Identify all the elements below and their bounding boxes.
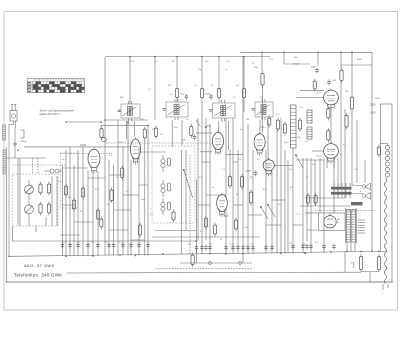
labels texture <box>58 91 359 216</box>
wires transformer bottom <box>347 242 355 251</box>
resistor Rp <box>306 193 309 206</box>
resistor Rq <box>314 193 317 206</box>
wire y120 <box>105 119 148 121</box>
svg-text:1n: 1n <box>283 129 285 131</box>
wire T4b anode <box>274 164 293 166</box>
title AEG <box>24 263 55 268</box>
label 220V <box>370 104 376 107</box>
wire top bus link <box>261 52 263 56</box>
wires speaker leads <box>352 185 364 194</box>
label AF7 <box>317 92 322 95</box>
wires B3 leads <box>260 120 268 160</box>
resistor Rh <box>249 190 252 206</box>
heater winding comb <box>358 220 366 233</box>
capacitor antenna 500pF <box>13 141 27 158</box>
resistor Rv1 <box>276 118 279 132</box>
IF transformer B0 <box>118 101 140 121</box>
wire 345 drop <box>344 252 346 273</box>
svg-text:30V: 30V <box>182 139 186 141</box>
wire y198 <box>305 197 345 199</box>
labels bottom <box>63 242 319 246</box>
resistor Rz1 <box>359 254 362 272</box>
resistor Rv2 <box>283 122 286 136</box>
label 7 <box>351 261 353 265</box>
wire antenna tap <box>14 121 17 141</box>
wire T6 grid <box>312 150 324 152</box>
svg-text:240V: 240V <box>357 59 362 61</box>
note text <box>40 109 75 117</box>
svg-text:2n: 2n <box>312 164 314 166</box>
svg-text:C7₂: C7₂ <box>207 125 211 128</box>
label AL4b <box>317 155 322 158</box>
wire left col C <box>12 226 14 241</box>
node dots bottom <box>209 262 242 265</box>
wires B0 leads <box>126 121 134 139</box>
wire 219 down <box>218 100 220 103</box>
label C7-4 <box>257 159 261 161</box>
IF bar tall <box>291 105 297 148</box>
resistor R14 <box>138 223 141 238</box>
wire drop 130 <box>129 86 131 104</box>
labels texture 2 <box>120 57 380 143</box>
svg-text:50pF: 50pF <box>205 94 211 96</box>
output transformer bar 2 <box>331 192 352 195</box>
resistor Re <box>268 116 271 128</box>
oscillator dashed box <box>152 146 195 223</box>
wire left col B <box>19 158 21 226</box>
wire y154 <box>226 154 243 156</box>
oscillator coil 1 <box>161 180 171 197</box>
resistor selector <box>377 145 380 158</box>
resistor osc <box>172 210 175 223</box>
svg-text:1M: 1M <box>246 119 249 121</box>
wire top bus left <box>105 56 270 58</box>
labels misc <box>62 67 362 246</box>
tube C7 second <box>212 131 223 156</box>
wire z bottom <box>361 272 379 283</box>
svg-text:220V: 220V <box>370 104 376 107</box>
wire antenna down <box>9 121 14 256</box>
resistor Rb <box>200 86 203 100</box>
wire y65 right <box>341 64 372 66</box>
wires top right drops <box>262 52 341 71</box>
capacitor row middle <box>195 245 274 251</box>
wire AVC line <box>12 240 196 242</box>
svg-text:5n: 5n <box>278 204 280 206</box>
wires osc verticals <box>182 150 190 254</box>
svg-text:150V: 150V <box>370 112 376 115</box>
variable capacitor C1 <box>25 180 34 200</box>
voltage selector contacts <box>385 145 389 177</box>
rectifier tube AZ11 <box>324 213 336 228</box>
heater resistance wire <box>384 178 387 284</box>
label 100pF <box>293 64 300 66</box>
svg-text:1M: 1M <box>345 91 348 93</box>
label AL4 <box>224 215 229 218</box>
resistor Rl <box>327 106 330 121</box>
wire 202 down <box>201 100 203 103</box>
wires middle-left verticals <box>105 57 148 256</box>
loudspeaker <box>363 183 371 199</box>
mains transformer core <box>345 208 356 244</box>
wires top drops <box>130 57 244 87</box>
resistor R13 <box>121 166 124 181</box>
svg-text:50pF: 50pF <box>246 171 252 173</box>
svg-text:1M: 1M <box>68 197 71 199</box>
label ACH1 <box>80 144 87 147</box>
resistor bottom pill <box>191 253 194 268</box>
svg-text:AEG, 37 GWK: AEG, 37 GWK <box>24 263 55 268</box>
tube duo-diode <box>263 158 274 177</box>
wire y122 <box>66 121 101 123</box>
resistor Rf3 <box>213 223 216 237</box>
wire bottom bus 2 <box>67 271 362 274</box>
wire heater drop 2 <box>242 254 244 263</box>
tube AF7 <box>324 88 339 110</box>
resistor Rn <box>345 113 348 130</box>
svg-text:5nF: 5nF <box>181 94 185 96</box>
wire y147 left <box>24 146 131 148</box>
resistor R8 <box>96 208 99 222</box>
wire selector top <box>380 104 392 251</box>
label C7-3 <box>261 126 265 129</box>
resistor left box A <box>39 182 51 196</box>
capacitor 5nF <box>181 94 188 100</box>
wire heater drop 1 <box>195 254 197 263</box>
grid stopper cluster <box>182 121 207 141</box>
wire varcap2 down <box>45 217 47 226</box>
resistor R5 <box>64 184 67 198</box>
wire main bottom bus <box>10 251 386 256</box>
svg-text:AL4: AL4 <box>224 215 229 218</box>
switch arm osc <box>183 169 193 197</box>
resistor Rz2 <box>377 254 380 272</box>
wires below T6 <box>303 158 338 253</box>
tube AF osc <box>131 137 141 165</box>
antenna <box>10 105 17 122</box>
switch diagonals <box>260 204 275 219</box>
svg-text:gelten bei 220 V ~: gelten bei 220 V ~ <box>40 112 62 116</box>
label texture v <box>200 227 249 241</box>
resistor Ra <box>175 86 178 100</box>
hook curve <box>353 262 354 268</box>
wire ground left frame <box>5 147 7 282</box>
resistor Ri <box>261 71 264 88</box>
resistor Ro <box>350 95 353 112</box>
ground hatch bar <box>3 125 6 140</box>
resistor R10 <box>143 127 146 141</box>
wires left section verticals <box>63 147 99 256</box>
coil pair left <box>44 169 62 173</box>
band switch table <box>27 78 84 92</box>
coupling bracket <box>21 130 25 138</box>
capacitor 50pF top <box>205 94 213 100</box>
svg-text:5n: 5n <box>240 129 242 131</box>
resistor Rd <box>242 86 245 100</box>
tube AL4 <box>217 193 228 218</box>
svg-text:C7₃: C7₃ <box>261 126 265 129</box>
tube ACH1 <box>88 147 100 173</box>
wire y152 stub <box>140 151 166 153</box>
wire y133 <box>196 132 212 134</box>
output transformer bar 1 <box>331 187 352 190</box>
svg-text:240V: 240V <box>375 98 380 100</box>
wire T5 grid <box>296 97 324 99</box>
wire 244 down <box>243 100 245 112</box>
oscillator coil 3 <box>161 198 171 215</box>
label 150V <box>370 112 376 115</box>
mains transformer winding 1 <box>347 210 351 243</box>
resistor R6 <box>72 198 75 212</box>
resistor R10b <box>154 126 157 140</box>
svg-text:Telefunken, 340 GWK: Telefunken, 340 GWK <box>14 272 62 277</box>
variable capacitor C2 <box>25 201 34 223</box>
resistor Rg <box>240 174 243 190</box>
wire far-right rail <box>391 104 393 282</box>
svg-text:1n: 1n <box>212 187 214 189</box>
wire left col D <box>51 176 53 226</box>
switch diag right <box>295 155 303 169</box>
resistor R12 <box>100 217 103 230</box>
svg-text:Strom- und Spannungswerte: Strom- und Spannungswerte <box>40 109 75 113</box>
wire 352 top <box>351 52 353 94</box>
svg-text:50pF: 50pF <box>311 67 317 69</box>
svg-text:2,5V: 2,5V <box>130 61 135 63</box>
output transformer leads <box>334 183 350 198</box>
wire below box stub <box>35 226 37 232</box>
resistor Rc <box>217 86 220 100</box>
wire 177 down <box>176 100 178 102</box>
svg-text:2n: 2n <box>107 204 109 206</box>
svg-text:2nF: 2nF <box>333 80 337 82</box>
svg-text:1M: 1M <box>168 85 171 87</box>
resistor R9 <box>100 126 103 140</box>
capacitor row right <box>291 244 335 250</box>
svg-text:40V: 40V <box>119 142 123 144</box>
svg-text:ACH1: ACH1 <box>80 144 87 147</box>
capacitor 50pF mid <box>246 170 257 176</box>
wire right HT rail <box>371 52 373 251</box>
mains transformer winding 2 <box>352 210 356 243</box>
resistor Rv3 <box>298 118 301 132</box>
wire y206 <box>300 205 351 207</box>
label C7a <box>126 123 130 126</box>
oscillator coil 2 <box>161 155 171 172</box>
wire connector stubs <box>63 162 318 240</box>
wire y168 left <box>63 167 89 169</box>
tuning gang dashed box <box>13 174 58 226</box>
title Telefunken <box>14 272 62 277</box>
svg-text:C⁄ n: C⁄ n <box>317 92 322 95</box>
resistor Rf4 <box>234 218 237 232</box>
mains plug marks <box>382 284 388 295</box>
wire dashed stub A <box>32 158 34 174</box>
IF transformer B3 <box>252 99 273 120</box>
node circle <box>102 137 106 141</box>
wire drop 155 <box>154 86 156 120</box>
wires B1 leads <box>172 120 182 147</box>
wire y125 <box>100 124 148 126</box>
resistor Rf2 <box>204 216 207 230</box>
resistor Rk <box>313 79 316 92</box>
schematic bottom frame <box>6 281 394 283</box>
bandfilter dashed box left <box>61 153 79 208</box>
field coil bar <box>351 202 363 205</box>
label AZ11 <box>337 218 340 224</box>
wire dashed y143 <box>106 142 212 144</box>
tube C7 third <box>254 132 265 156</box>
wire y237 <box>152 236 260 238</box>
wire y64 <box>284 63 310 65</box>
wire y90 <box>300 89 324 91</box>
resistor Rm <box>327 128 330 143</box>
wire heater line <box>180 262 252 264</box>
wire ground dashed <box>155 268 252 270</box>
wires middle verticals <box>196 57 253 254</box>
wire y153 dashed <box>60 153 112 155</box>
resistor left box B <box>39 202 51 216</box>
resistor R11 <box>110 188 113 204</box>
wire y210 <box>315 210 375 212</box>
wire dashed stub B <box>37 158 39 174</box>
wires T6 pins <box>296 159 334 169</box>
wire top bus right <box>240 51 372 53</box>
wires centre-right verticals <box>263 85 294 254</box>
IF transformer B1 <box>163 99 188 120</box>
IF bar small B <box>307 127 312 139</box>
capacitor 2nF <box>327 79 337 85</box>
capacitor row left <box>61 242 150 248</box>
wire y230 <box>155 230 196 232</box>
wire y165 dashed left <box>13 164 66 166</box>
resistor Rj <box>340 68 343 84</box>
resistor Rf <box>228 174 231 189</box>
wires T5 region <box>331 81 365 199</box>
resistor R7 <box>81 186 84 200</box>
svg-text:5n: 5n <box>186 119 188 121</box>
label C7-2 <box>207 125 211 128</box>
wire left col E <box>56 176 58 226</box>
IF transformer B2 <box>209 100 235 121</box>
svg-text:C⁄ 4: C⁄ 4 <box>317 155 322 158</box>
wire y213 <box>305 212 319 214</box>
svg-text:500pF: 500pF <box>21 141 28 143</box>
ground hatch bar 2 <box>3 150 6 174</box>
wire y158 left <box>7 157 47 159</box>
wire varcap1 down <box>28 222 30 226</box>
tube AL4b <box>324 142 339 164</box>
rectifier box <box>319 213 346 231</box>
wire left col A <box>17 158 19 225</box>
capacitor 50pF tr <box>311 67 319 74</box>
IF bar small A <box>307 110 312 123</box>
wire y235 <box>60 234 80 236</box>
wires B2 leads <box>219 121 229 150</box>
wire y151 <box>200 151 212 153</box>
